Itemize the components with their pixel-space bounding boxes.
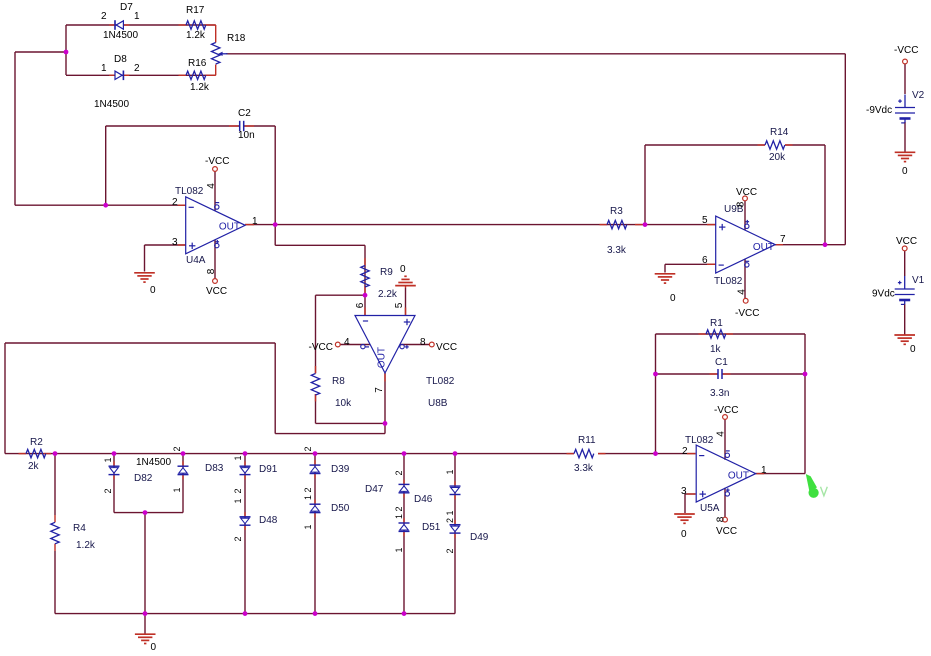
svg-text:R1: R1 [710, 318, 723, 329]
svg-text:D7: D7 [120, 2, 133, 13]
svg-text:0: 0 [400, 264, 406, 275]
svg-text:20k: 20k [769, 152, 786, 163]
svg-text:TL082: TL082 [685, 435, 714, 446]
svg-text:8: 8 [716, 516, 727, 522]
svg-text:D83: D83 [205, 463, 224, 474]
svg-text:V2: V2 [912, 90, 925, 101]
svg-text:D51: D51 [422, 522, 441, 533]
svg-text:-VCC: -VCC [309, 342, 333, 353]
svg-text:D46: D46 [414, 494, 433, 505]
svg-text:R2: R2 [30, 437, 43, 448]
svg-text:R18: R18 [227, 33, 246, 44]
svg-text:C2: C2 [238, 108, 251, 119]
svg-text:R11: R11 [578, 435, 596, 446]
svg-text:-VCC: -VCC [894, 45, 918, 56]
svg-text:2: 2 [101, 11, 107, 22]
svg-text:D91: D91 [259, 464, 278, 475]
svg-text:OUT: OUT [728, 471, 749, 482]
svg-text:1N4500: 1N4500 [94, 99, 129, 110]
svg-text:R3: R3 [610, 206, 623, 217]
svg-text:R4: R4 [73, 523, 86, 534]
svg-text:-VCC: -VCC [205, 156, 229, 167]
svg-text:1k: 1k [710, 344, 722, 355]
svg-text:2: 2 [172, 197, 178, 208]
svg-text:6: 6 [702, 255, 708, 266]
svg-text:VCC: VCC [736, 187, 757, 198]
svg-text:1: 1 [252, 216, 258, 227]
svg-text:1: 1 [394, 547, 404, 552]
svg-text:1: 1 [445, 469, 455, 474]
svg-text:R16: R16 [188, 58, 207, 69]
svg-text:2: 2 [172, 446, 182, 451]
svg-text:-VCC: -VCC [735, 308, 759, 319]
svg-text:2: 2 [303, 446, 313, 451]
svg-text:1.2k: 1.2k [186, 30, 206, 41]
svg-text:OUT: OUT [377, 347, 388, 368]
svg-text:5: 5 [702, 215, 708, 226]
svg-text:1: 1 [233, 498, 243, 503]
svg-text:D48: D48 [259, 515, 278, 526]
svg-text:3: 3 [681, 486, 687, 497]
svg-text:3: 3 [172, 237, 178, 248]
svg-text:1: 1 [172, 487, 182, 492]
svg-text:TL082: TL082 [175, 186, 204, 197]
svg-text:D50: D50 [331, 503, 350, 514]
svg-text:D39: D39 [331, 464, 350, 475]
svg-text:2k: 2k [28, 461, 40, 472]
svg-text:D47: D47 [365, 484, 384, 495]
svg-text:TL082: TL082 [714, 276, 743, 287]
svg-text:1N4500: 1N4500 [136, 457, 171, 468]
svg-text:0: 0 [670, 293, 676, 304]
svg-text:2: 2 [394, 470, 404, 475]
svg-text:1: 1 [761, 465, 767, 476]
svg-text:2: 2 [233, 488, 243, 493]
svg-text:VCC: VCC [716, 526, 737, 537]
svg-text:4: 4 [206, 183, 217, 189]
svg-text:4: 4 [716, 431, 727, 437]
svg-text:2: 2 [682, 446, 688, 457]
svg-text:2: 2 [303, 487, 313, 492]
svg-text:8: 8 [420, 337, 426, 348]
svg-text:1: 1 [303, 495, 313, 500]
svg-text:R17: R17 [186, 5, 205, 16]
svg-text:OUT: OUT [753, 242, 774, 253]
svg-text:-VCC: -VCC [714, 405, 738, 416]
svg-text:3.3k: 3.3k [607, 245, 627, 256]
svg-text:D82: D82 [134, 473, 153, 484]
svg-text:U8B: U8B [428, 398, 448, 409]
svg-text:1: 1 [303, 524, 313, 529]
svg-text:1: 1 [233, 455, 243, 460]
svg-text:D49: D49 [470, 532, 489, 543]
svg-text:1: 1 [134, 11, 140, 22]
svg-text:0: 0 [681, 529, 687, 540]
svg-text:-9Vdc: -9Vdc [866, 105, 892, 116]
svg-text:1: 1 [103, 457, 113, 462]
svg-text:VCC: VCC [206, 286, 227, 297]
svg-text:2: 2 [233, 536, 243, 541]
svg-text:U4A: U4A [186, 255, 206, 266]
svg-text:1.2k: 1.2k [190, 82, 210, 93]
svg-text:0: 0 [150, 285, 156, 296]
svg-text:1N4500: 1N4500 [103, 30, 138, 41]
svg-text:5: 5 [394, 302, 405, 308]
svg-text:4: 4 [344, 337, 350, 348]
svg-text:3.3k: 3.3k [574, 463, 594, 474]
svg-text:8: 8 [736, 201, 747, 207]
svg-text:C1: C1 [715, 357, 728, 368]
svg-text:0: 0 [151, 642, 157, 653]
svg-text:2: 2 [445, 518, 455, 523]
svg-text:R14: R14 [770, 127, 789, 138]
svg-text:1.2k: 1.2k [76, 540, 96, 551]
svg-text:R8: R8 [332, 376, 345, 387]
svg-text:7: 7 [374, 387, 385, 393]
svg-text:V1: V1 [912, 275, 925, 286]
svg-text:6: 6 [355, 302, 366, 308]
svg-text:2.2k: 2.2k [378, 289, 398, 300]
svg-text:OUT: OUT [219, 222, 240, 233]
svg-text:0: 0 [910, 344, 916, 355]
svg-text:9Vdc: 9Vdc [872, 289, 895, 300]
svg-text:7: 7 [780, 234, 786, 245]
svg-text:8: 8 [206, 268, 217, 274]
svg-text:R9: R9 [380, 267, 393, 278]
svg-text:VCC: VCC [436, 342, 457, 353]
svg-text:TL082: TL082 [426, 376, 455, 387]
svg-text:2: 2 [103, 488, 113, 493]
svg-text:1: 1 [445, 510, 455, 515]
svg-text:2: 2 [134, 63, 140, 74]
svg-text:0: 0 [902, 166, 908, 177]
svg-text:1: 1 [394, 514, 404, 519]
svg-text:3.3n: 3.3n [710, 388, 729, 399]
svg-text:4: 4 [737, 289, 748, 295]
svg-text:U5A: U5A [700, 503, 720, 514]
svg-text:2: 2 [445, 548, 455, 553]
svg-text:10k: 10k [335, 398, 352, 409]
svg-text:1: 1 [101, 63, 107, 74]
svg-text:2: 2 [394, 506, 404, 511]
svg-text:10n: 10n [238, 130, 255, 141]
svg-text:D8: D8 [114, 54, 127, 65]
svg-text:VCC: VCC [896, 236, 917, 247]
